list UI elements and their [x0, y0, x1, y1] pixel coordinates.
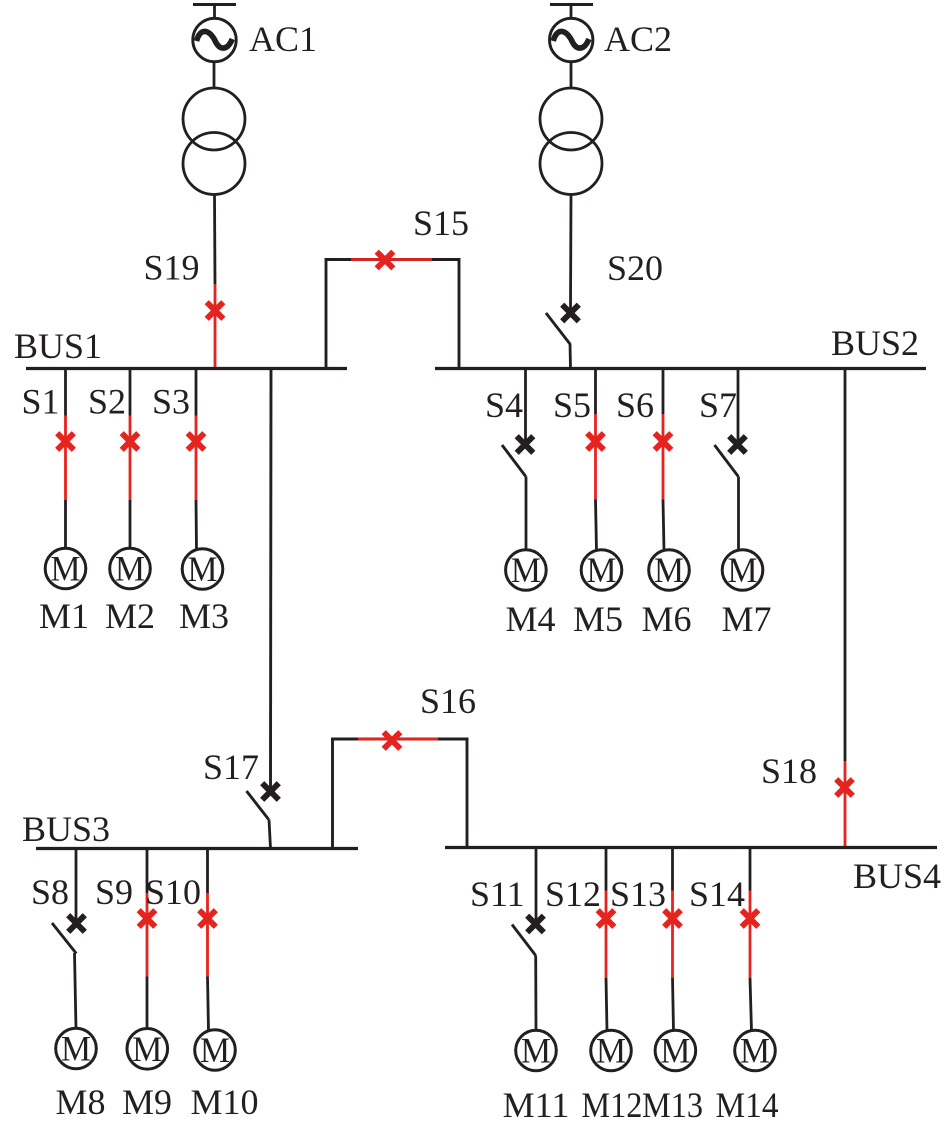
switch S17 (open, black) — [247, 783, 279, 819]
transformer T2 — [540, 88, 602, 195]
svg-text:BUS2: BUS2 — [831, 323, 919, 363]
svg-text:S20: S20 — [607, 248, 663, 288]
svg-text:M: M — [596, 1031, 626, 1071]
wire BUS2 to S4 — [524, 369, 527, 442]
wire AC2 to T2 — [570, 62, 573, 90]
wire S11 to M11 — [534, 956, 537, 1032]
svg-text:M: M — [654, 550, 684, 590]
wire BUS2 to S7 — [737, 369, 740, 442]
switch S9 (closed, red) — [139, 893, 156, 977]
svg-text:S12: S12 — [545, 874, 601, 914]
svg-text:S16: S16 — [420, 681, 476, 721]
wire S3 to M3 — [195, 500, 198, 551]
svg-text:M13: M13 — [642, 1085, 703, 1125]
motor M13 — [655, 1030, 696, 1071]
wire T2 to S20 — [569, 195, 572, 311]
wire S7 to M7 — [737, 477, 740, 552]
svg-text:M: M — [115, 549, 145, 589]
motor M14 — [735, 1030, 776, 1071]
wire BUS4 to S11 — [535, 848, 538, 921]
svg-text:M: M — [188, 549, 218, 589]
svg-text:M4: M4 — [505, 599, 555, 639]
switch S6 (closed, red) — [655, 414, 672, 500]
svg-text:M10: M10 — [190, 1082, 258, 1122]
AC source AC1 — [193, 5, 236, 62]
svg-text:BUS4: BUS4 — [853, 856, 941, 896]
svg-text:M12: M12 — [581, 1085, 642, 1125]
svg-text:M11: M11 — [503, 1085, 570, 1125]
wire S9 to M9 — [146, 977, 149, 1030]
wire BUS4 to S12 — [605, 848, 608, 891]
svg-text:M6: M6 — [641, 599, 691, 639]
switch S13 (closed, red) — [664, 891, 681, 979]
svg-text:M7: M7 — [721, 599, 771, 639]
switch S3 (closed, red) — [188, 416, 205, 501]
svg-text:M: M — [511, 550, 541, 590]
switch S18 (closed, red) — [836, 761, 853, 848]
svg-text:M14: M14 — [716, 1085, 779, 1125]
svg-text:M: M — [660, 1031, 690, 1071]
motor M11 — [516, 1030, 557, 1071]
wire BUS4 to S13 — [671, 848, 674, 891]
switch S5 (closed, red) — [587, 414, 604, 500]
motor M9 — [127, 1029, 168, 1070]
wire S5 to M5 — [596, 500, 597, 552]
svg-text:S7: S7 — [699, 385, 737, 425]
bus BUS1 — [26, 367, 347, 370]
switch S20 (open, black) — [546, 305, 579, 344]
svg-text:S14: S14 — [689, 874, 745, 914]
wire BUS3 to S8 — [75, 849, 78, 924]
switch S10 (closed, red) — [199, 893, 216, 977]
motor M3 — [182, 549, 223, 590]
wire BUS2 to S5 — [594, 369, 597, 415]
wire BUS1 to S2 — [129, 369, 132, 416]
wire S1 to M1 — [64, 500, 67, 550]
svg-text:S11: S11 — [470, 874, 525, 914]
AC source AC2 — [550, 5, 594, 62]
switch S12 (closed, red) — [598, 891, 615, 979]
switch S1 (closed, red) — [57, 416, 74, 501]
svg-text:AC1: AC1 — [249, 19, 317, 59]
svg-text:M: M — [61, 1029, 91, 1069]
svg-text:S15: S15 — [413, 203, 469, 243]
switch S11 (open, black) — [512, 916, 544, 956]
tie S15 bridge wires — [325, 258, 461, 368]
svg-text:AC2: AC2 — [604, 19, 672, 59]
wire BUS2 to S18 — [844, 369, 847, 762]
svg-text:S4: S4 — [485, 385, 523, 425]
bus BUS2 — [435, 367, 926, 370]
bus BUS3 — [36, 847, 358, 850]
switch S16 (closed, red) — [358, 732, 438, 749]
wire S20 to BUS2 — [569, 344, 572, 369]
switch S7 (open, black) — [715, 436, 746, 476]
svg-text:M: M — [728, 550, 758, 590]
wire S6 to M6 — [663, 500, 664, 552]
bus BUS4 — [445, 846, 937, 849]
switch S14 (closed, red) — [742, 891, 759, 979]
switch S2 (closed, red) — [122, 416, 139, 501]
svg-text:M5: M5 — [573, 599, 623, 639]
motor M2 — [110, 548, 151, 589]
motor M4 — [506, 550, 547, 591]
wire S4 to M4 — [525, 477, 528, 551]
transformer T1 — [183, 88, 245, 195]
wire S14 to M14 — [750, 978, 752, 1031]
svg-text:S5: S5 — [553, 385, 591, 425]
tie S16 bridge wires — [331, 738, 468, 849]
wire BUS4 to S14 — [749, 848, 752, 891]
wire BUS3 to S10 — [206, 849, 209, 894]
svg-text:M: M — [132, 1029, 162, 1069]
svg-text:S10: S10 — [145, 872, 201, 912]
svg-text:BUS3: BUS3 — [22, 809, 110, 849]
svg-text:S8: S8 — [31, 872, 69, 912]
wire AC1 to T1 — [213, 62, 216, 90]
wire T1 to S19 — [213, 195, 216, 285]
wire S2 to M2 — [129, 500, 132, 550]
switch S15 (closed, red) — [351, 252, 432, 269]
svg-text:M1: M1 — [39, 596, 89, 636]
svg-text:M: M — [587, 550, 617, 590]
motor M6 — [649, 550, 690, 591]
svg-text:M9: M9 — [122, 1082, 172, 1122]
wire BUS1 to S3 — [195, 369, 198, 416]
svg-text:M: M — [521, 1031, 551, 1071]
svg-text:S17: S17 — [203, 747, 259, 787]
svg-text:S6: S6 — [616, 385, 654, 425]
svg-text:S9: S9 — [95, 872, 133, 912]
switch S8 (open, black) — [52, 915, 85, 953]
svg-text:S3: S3 — [152, 382, 190, 422]
motor M8 — [56, 1028, 97, 1069]
wire BUS2 to S6 — [662, 369, 665, 415]
wire BUS1 to S1 — [64, 369, 67, 416]
motor M1 — [45, 548, 86, 589]
motor M5 — [581, 550, 622, 591]
svg-text:BUS1: BUS1 — [14, 326, 102, 366]
svg-text:M: M — [740, 1031, 770, 1071]
svg-text:M: M — [200, 1030, 230, 1070]
svg-text:S1: S1 — [22, 382, 60, 422]
svg-text:M8: M8 — [55, 1082, 105, 1122]
svg-text:S19: S19 — [144, 248, 200, 288]
svg-text:M: M — [51, 549, 81, 589]
svg-text:S13: S13 — [610, 874, 666, 914]
motor M7 — [722, 550, 763, 591]
switch S19 (closed, red) — [207, 284, 224, 368]
wire S8 to M8 — [75, 953, 77, 1029]
wire S17 to BUS3 — [269, 820, 271, 849]
svg-text:S18: S18 — [761, 751, 817, 791]
wire S13 to M13 — [673, 978, 674, 1031]
wire BUS1 to S17 — [269, 369, 272, 789]
switch S4 (open, black) — [502, 436, 533, 476]
motor M12 — [591, 1030, 632, 1071]
svg-text:S2: S2 — [88, 382, 126, 422]
wire S12 to M12 — [606, 978, 607, 1031]
wire S10 to M10 — [208, 977, 209, 1032]
svg-text:M2: M2 — [105, 596, 155, 636]
motor M10 — [195, 1030, 236, 1071]
svg-text:M3: M3 — [179, 596, 229, 636]
wire BUS3 to S9 — [146, 849, 149, 894]
